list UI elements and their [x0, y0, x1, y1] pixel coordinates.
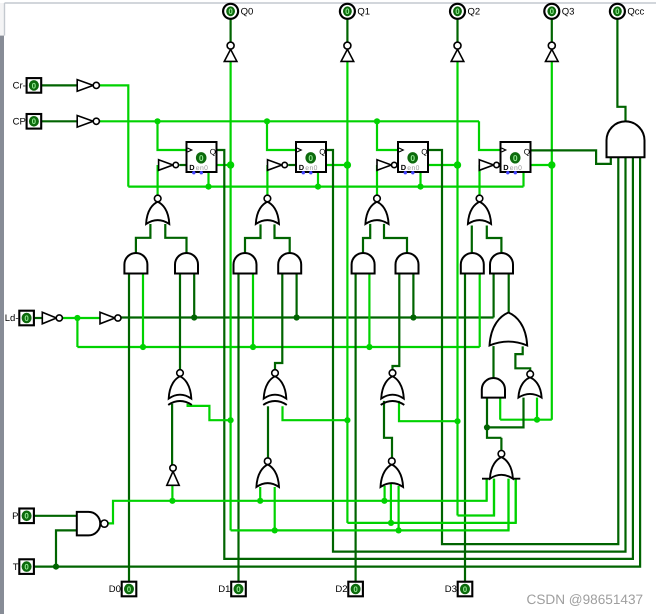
- svg-text:D3: D3: [445, 584, 457, 595]
- svg-text:D: D: [401, 163, 407, 172]
- svg-text:en0: en0: [407, 165, 420, 172]
- svg-text:T: T: [13, 562, 19, 573]
- svg-text:CSDN @98651437: CSDN @98651437: [527, 592, 644, 607]
- svg-text:0: 0: [236, 585, 241, 594]
- svg-text:0: 0: [32, 81, 37, 90]
- svg-text:0: 0: [32, 117, 37, 126]
- svg-text:0: 0: [513, 153, 518, 163]
- svg-text:0: 0: [228, 7, 233, 16]
- svg-text:0: 0: [24, 512, 29, 521]
- svg-text:Cr-: Cr-: [13, 81, 26, 92]
- svg-text:0: 0: [410, 153, 415, 163]
- svg-text:en0: en0: [196, 165, 209, 172]
- svg-text:Q1: Q1: [357, 7, 370, 18]
- svg-text:D0: D0: [109, 584, 121, 595]
- svg-text:Q: Q: [524, 148, 530, 157]
- svg-text:0: 0: [550, 7, 555, 16]
- svg-text:Q3: Q3: [562, 7, 575, 18]
- svg-text:en0: en0: [305, 165, 318, 172]
- svg-text:en0: en0: [510, 165, 523, 172]
- svg-text:0: 0: [127, 585, 132, 594]
- svg-text:Q2: Q2: [468, 7, 481, 18]
- svg-text:Q: Q: [210, 148, 216, 157]
- svg-text:Q: Q: [421, 148, 427, 157]
- svg-text:Ld-: Ld-: [5, 313, 19, 324]
- svg-text:0: 0: [353, 585, 358, 594]
- svg-text:0: 0: [345, 7, 350, 16]
- svg-text:CP: CP: [13, 117, 26, 128]
- svg-text:D: D: [189, 163, 195, 172]
- svg-text:D2: D2: [335, 584, 347, 595]
- svg-text:D1: D1: [218, 584, 230, 595]
- svg-text:D: D: [503, 163, 509, 172]
- svg-text:0: 0: [463, 585, 468, 594]
- svg-text:0: 0: [615, 7, 620, 16]
- svg-text:0: 0: [455, 7, 460, 16]
- svg-text:P: P: [12, 511, 18, 522]
- svg-text:0: 0: [24, 563, 29, 572]
- svg-text:D: D: [299, 163, 305, 172]
- svg-text:0: 0: [199, 153, 204, 163]
- svg-text:Qcc: Qcc: [627, 7, 644, 18]
- svg-text:0: 0: [308, 153, 313, 163]
- svg-text:0: 0: [24, 314, 29, 323]
- svg-text:Q0: Q0: [241, 7, 254, 18]
- svg-text:Q: Q: [319, 148, 325, 157]
